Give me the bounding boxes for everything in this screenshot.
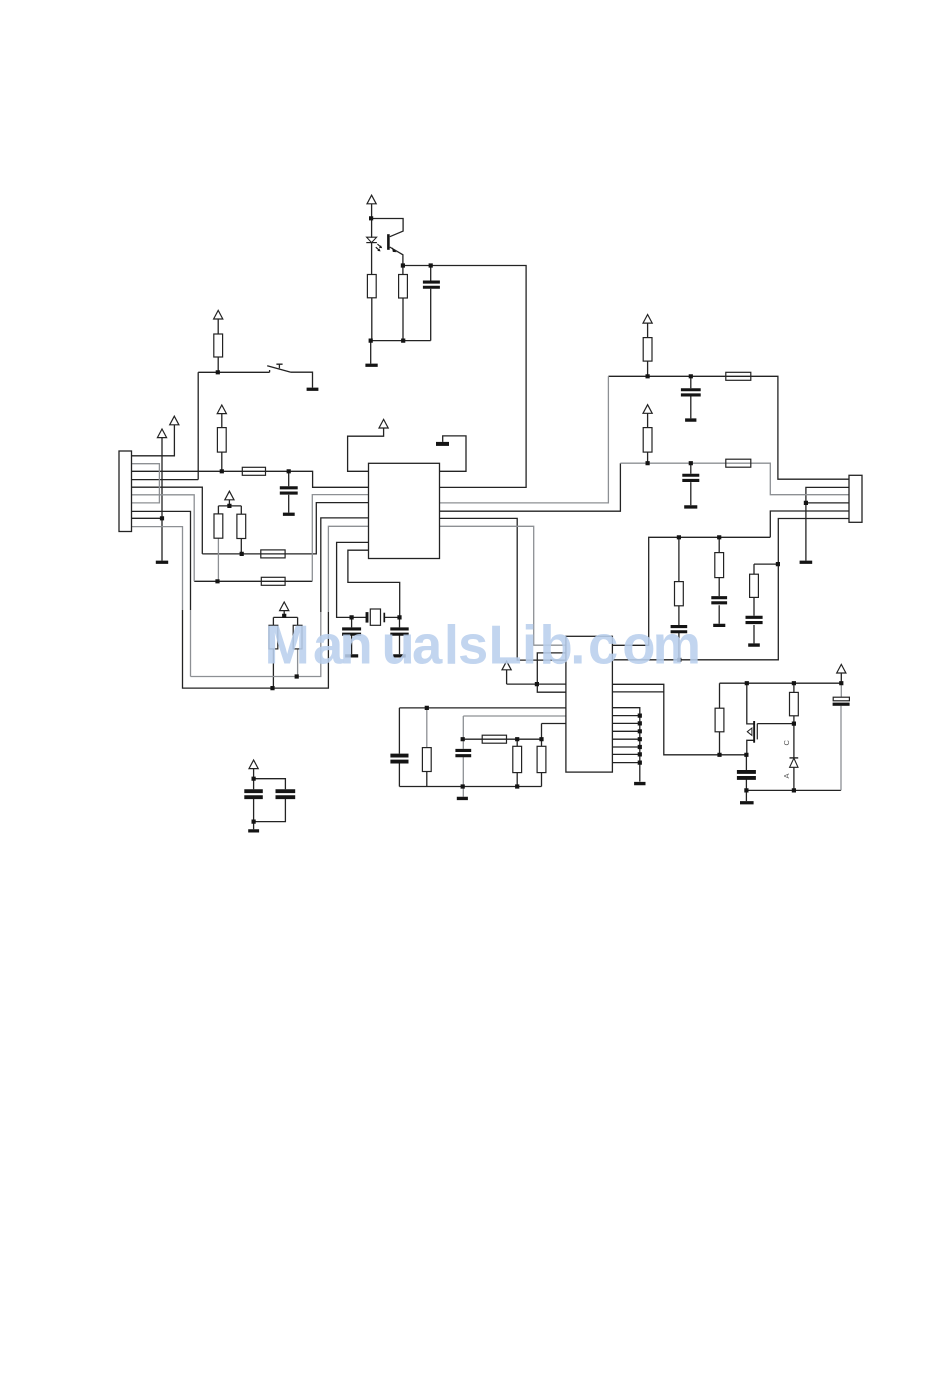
svg-text:A: A: [782, 773, 791, 778]
svg-text:C: C: [782, 740, 791, 746]
svg-text:ManualsLib.com: ManualsLib.com: [265, 615, 701, 676]
